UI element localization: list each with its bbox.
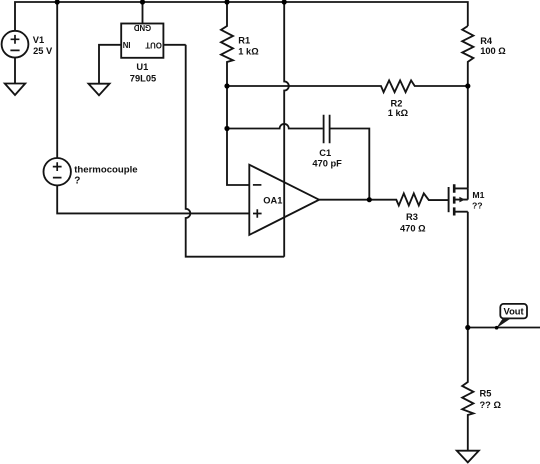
svg-text:100 Ω: 100 Ω bbox=[480, 46, 506, 56]
svg-text:1 kΩ: 1 kΩ bbox=[388, 108, 409, 118]
svg-text:?? Ω: ?? Ω bbox=[480, 400, 502, 410]
svg-text:thermocouple: thermocouple bbox=[74, 164, 137, 175]
svg-text:R2: R2 bbox=[391, 99, 403, 109]
svg-text:OA1: OA1 bbox=[263, 196, 282, 206]
svg-text:V1: V1 bbox=[33, 35, 44, 45]
svg-text:79L05: 79L05 bbox=[130, 74, 156, 84]
svg-text:IN: IN bbox=[122, 40, 130, 49]
svg-text:Vout: Vout bbox=[504, 306, 524, 317]
svg-text:OUT: OUT bbox=[145, 41, 162, 50]
svg-text:25 V: 25 V bbox=[33, 46, 53, 56]
svg-text:R5: R5 bbox=[480, 389, 492, 399]
svg-text:R1: R1 bbox=[238, 35, 250, 45]
svg-text:470 Ω: 470 Ω bbox=[400, 224, 426, 234]
svg-text:?: ? bbox=[74, 176, 80, 187]
svg-text:U1: U1 bbox=[136, 62, 148, 72]
svg-text:GND: GND bbox=[133, 23, 151, 32]
svg-text:??: ?? bbox=[472, 201, 483, 211]
svg-text:470 pF: 470 pF bbox=[312, 158, 342, 168]
svg-text:M1: M1 bbox=[472, 190, 484, 200]
svg-text:R3: R3 bbox=[406, 212, 418, 222]
svg-text:C1: C1 bbox=[319, 148, 331, 158]
svg-text:1 kΩ: 1 kΩ bbox=[238, 46, 259, 56]
svg-text:R4: R4 bbox=[480, 36, 493, 46]
